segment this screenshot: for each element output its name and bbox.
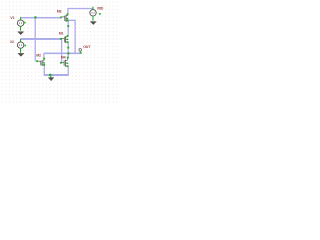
svg-text:VDD: VDD bbox=[97, 7, 104, 11]
pin M2 source bbox=[43, 64, 45, 66]
pin stub bottom ground bbox=[50, 75, 51, 77]
pin M2 bulk bbox=[43, 62, 45, 63]
label M4 bbox=[61, 56, 66, 60]
voltage source V1 bbox=[17, 20, 23, 26]
pin stub VDD bottom bbox=[92, 16, 93, 21]
V2 value dot bbox=[24, 45, 26, 47]
ground under V2 bbox=[18, 54, 24, 57]
wire W2: V2 top to M1 gate bbox=[21, 38, 62, 40]
pin M4 source bbox=[67, 65, 69, 67]
pin M1 source bbox=[67, 41, 69, 43]
node junction OUT row bbox=[67, 52, 69, 54]
voltage source V2 bbox=[17, 42, 23, 48]
pin M4 bulk bbox=[67, 63, 69, 64]
label M2 bbox=[36, 54, 41, 58]
wire: M4 source down to bottom rail bbox=[67, 67, 69, 75]
pin stub V2 bottom bbox=[20, 48, 21, 53]
svg-text:M2: M2 bbox=[36, 54, 41, 58]
wire: M3 source to OUT column bbox=[68, 20, 75, 53]
node junction M3 source column bbox=[67, 25, 69, 27]
node junction bottom rail bbox=[49, 74, 51, 76]
label OUT bbox=[83, 45, 91, 49]
node junction M1 source column bbox=[67, 47, 69, 49]
pin M2 drain bbox=[43, 58, 45, 60]
pin M3 drain bbox=[67, 13, 69, 15]
pin M4 gate bbox=[60, 62, 62, 64]
label M3 bbox=[57, 10, 62, 14]
pin M3 source bbox=[67, 20, 69, 22]
label V1 bbox=[10, 16, 14, 20]
transistor M2 (lower left) bbox=[38, 60, 44, 66]
wire: bottom rail bbox=[44, 74, 69, 76]
svg-text:M1: M1 bbox=[59, 31, 64, 35]
label V2 bbox=[10, 40, 14, 44]
svg-text:M4: M4 bbox=[61, 56, 66, 60]
pin stub V1 bottom bbox=[20, 26, 21, 30]
svg-text:V1: V1 bbox=[10, 16, 14, 20]
pin M4 drain bbox=[67, 57, 69, 59]
voltage source VDD bbox=[90, 10, 96, 16]
pin stub V2 top bbox=[20, 39, 21, 42]
wire W3: VDD rail to M3 drain bbox=[68, 9, 93, 14]
VDD value dot bbox=[99, 13, 101, 15]
pin M1 gate bbox=[60, 38, 62, 40]
pin M1 bulk bbox=[67, 39, 69, 40]
V1 value dot bbox=[24, 22, 26, 24]
wire: vertical branch from W1 down to M2 gate (x=35.2) bbox=[34, 17, 36, 61]
wire: M3 source down to M1 drain bbox=[67, 21, 69, 36]
svg-text:M3: M3 bbox=[57, 10, 62, 14]
ground bottom rail bbox=[48, 78, 54, 81]
ground under V1 bbox=[18, 32, 24, 35]
node junction on W1 bbox=[34, 16, 36, 18]
label M1 bbox=[59, 31, 64, 35]
transistor M1 bbox=[62, 36, 68, 43]
wire: corner down to M2(left) drain bbox=[43, 53, 45, 58]
transistor M3 bbox=[62, 15, 68, 22]
ground under VDD bbox=[90, 22, 96, 25]
pin M2 gate bbox=[36, 60, 38, 62]
pin M1 drain bbox=[67, 35, 69, 37]
transistor M4 (lower right) bbox=[62, 59, 68, 67]
pin OUT bbox=[80, 52, 82, 54]
wire: vertical branch from W2 down to M4 gate (x=61.6) bbox=[61, 39, 63, 63]
wire W1: V1 top to M3 gate bbox=[21, 17, 62, 19]
pin M3 gate bbox=[60, 17, 62, 19]
svg-text:OUT: OUT bbox=[83, 45, 91, 49]
svg-text:V2: V2 bbox=[10, 40, 14, 44]
pin stub VDD top bbox=[92, 7, 93, 10]
pin stub V1 top bbox=[20, 17, 21, 20]
wire: M2 source down to bottom rail bbox=[43, 65, 45, 74]
wire: M1 source down to M4 drain bbox=[67, 43, 69, 59]
pin M3 bulk bbox=[67, 18, 69, 19]
wire: OUT horizontal row 53 bbox=[44, 52, 81, 54]
port OUT glyph bbox=[79, 49, 82, 52]
label VDD bbox=[97, 7, 104, 11]
